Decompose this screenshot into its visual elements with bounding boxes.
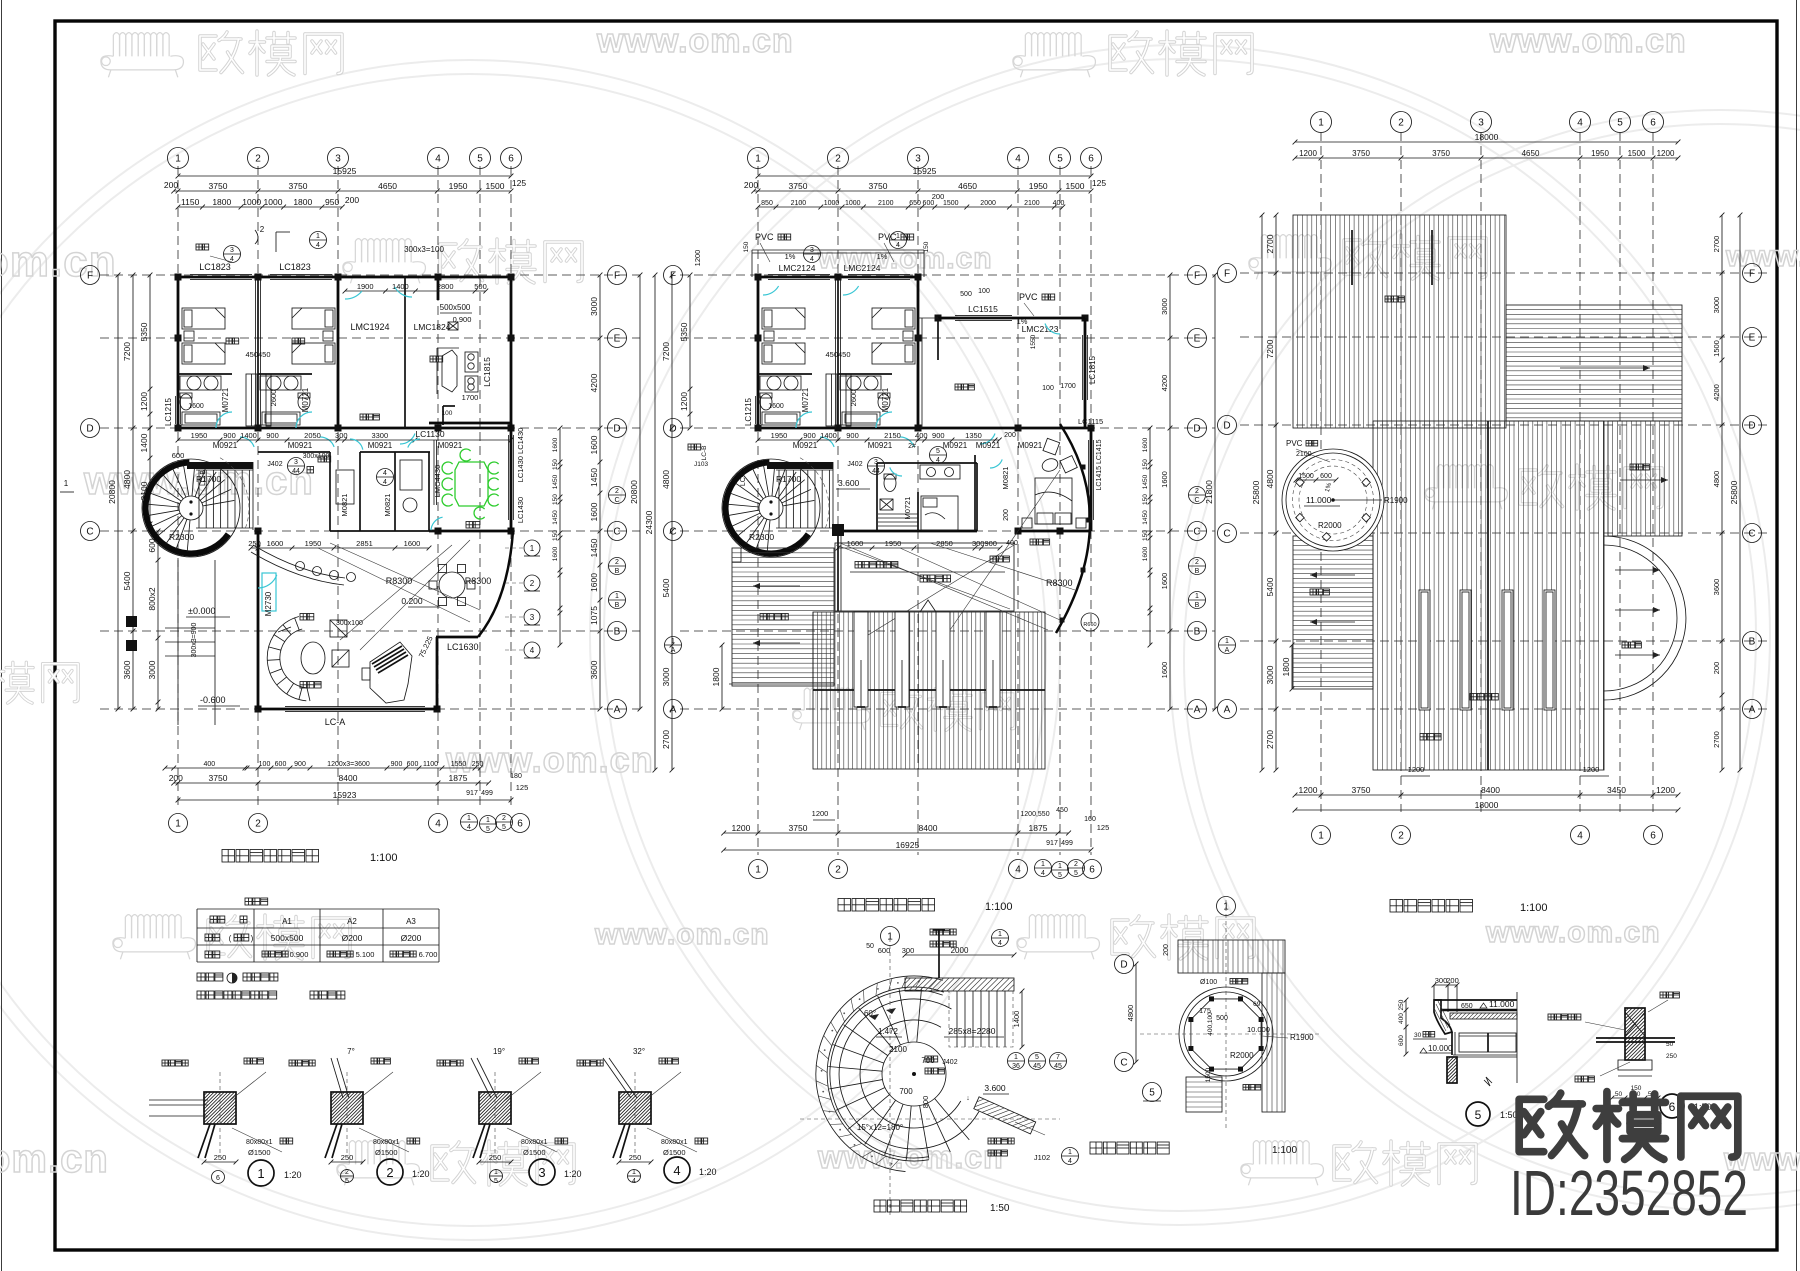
sill detail bottom dim 250 bbox=[331, 1161, 363, 1163]
svg-text:1400: 1400 bbox=[240, 431, 257, 440]
plan2 central bathroom fixtures bbox=[884, 475, 896, 492]
svg-text:3: 3 bbox=[915, 154, 921, 165]
plan1 axis grid horizontal dashed lines bbox=[100, 274, 640, 276]
svg-text:18000: 18000 bbox=[1475, 132, 1499, 142]
party wall double line bbox=[835, 277, 837, 428]
svg-text:R660: R660 bbox=[1083, 622, 1096, 628]
svg-text:1: 1 bbox=[896, 233, 900, 240]
svg-text:2: 2 bbox=[255, 154, 261, 165]
svg-text:LC1130: LC1130 bbox=[415, 429, 444, 439]
svg-text:D: D bbox=[1193, 424, 1200, 435]
svg-text:950: 950 bbox=[325, 197, 339, 207]
closets flanking party wall bbox=[246, 374, 257, 426]
eave detail right edge bbox=[1516, 992, 1518, 1083]
svg-text:1875: 1875 bbox=[449, 773, 468, 783]
plan1 R8300 leader lines bbox=[318, 548, 470, 622]
note line 1 with circle symbol bbox=[197, 973, 205, 981]
plan2 void railing label bbox=[855, 562, 862, 569]
svg-text:J402: J402 bbox=[847, 461, 862, 468]
svg-text:200: 200 bbox=[164, 180, 178, 190]
svg-text:5: 5 bbox=[494, 1178, 498, 1185]
plan3 left grid bubbles bbox=[1218, 264, 1237, 283]
svg-text:20800: 20800 bbox=[107, 480, 117, 504]
svg-text:32°: 32° bbox=[633, 1047, 645, 1056]
svg-text:A: A bbox=[1224, 705, 1231, 716]
svg-text:M0921: M0921 bbox=[976, 441, 1001, 450]
svg-text:15°x12=180°: 15°x12=180° bbox=[857, 1123, 903, 1132]
site logo big text bbox=[1519, 1092, 1738, 1160]
svg-text:7200: 7200 bbox=[1265, 339, 1275, 358]
svg-text:5350: 5350 bbox=[139, 322, 149, 341]
svg-text:C: C bbox=[1748, 529, 1755, 540]
svg-text:LC1823: LC1823 bbox=[279, 262, 311, 272]
svg-text:150: 150 bbox=[552, 530, 559, 541]
svg-text:180: 180 bbox=[510, 773, 522, 780]
stair roof detail corner dots bbox=[1259, 1046, 1264, 1051]
plan2 axis grid vertical dashed lines bbox=[757, 166, 759, 855]
svg-text:200: 200 bbox=[1446, 976, 1459, 985]
svg-text:www.om.cn: www.om.cn bbox=[594, 918, 770, 951]
svg-text:250: 250 bbox=[1666, 1053, 1677, 1060]
svg-text:1000: 1000 bbox=[264, 197, 283, 207]
svg-text:250: 250 bbox=[629, 1153, 642, 1162]
svg-text:3: 3 bbox=[294, 459, 298, 466]
svg-text:1875: 1875 bbox=[1029, 823, 1048, 833]
plan1 right side section bubbles bbox=[524, 540, 540, 556]
svg-text:3000: 3000 bbox=[147, 660, 157, 679]
svg-text:C: C bbox=[613, 527, 620, 538]
plan2 left grid bubbles bbox=[664, 266, 683, 285]
eave detail parapet wall hatched bbox=[1434, 1000, 1452, 1034]
plan1 conference green table bbox=[455, 462, 488, 506]
svg-text:3000: 3000 bbox=[661, 667, 671, 686]
svg-text:2100: 2100 bbox=[1024, 200, 1040, 207]
svg-text:150: 150 bbox=[552, 459, 559, 470]
svg-text:250: 250 bbox=[472, 761, 484, 768]
svg-text:3: 3 bbox=[335, 154, 341, 165]
svg-text:50: 50 bbox=[1615, 1091, 1623, 1098]
svg-text:M0721: M0721 bbox=[301, 387, 310, 412]
svg-text:3450: 3450 bbox=[1607, 785, 1626, 795]
svg-text:2100: 2100 bbox=[878, 200, 894, 207]
svg-text:400: 400 bbox=[203, 761, 215, 768]
plan1 left grid bubbles bbox=[81, 266, 100, 285]
watermark brand band2 right bbox=[1344, 235, 1486, 279]
plan1 hall door arcs top bbox=[345, 291, 362, 299]
svg-text:450450: 450450 bbox=[825, 350, 850, 359]
plan3 roof rect right-mid vertical hatch bbox=[1608, 421, 1682, 536]
svg-text:1: 1 bbox=[998, 931, 1002, 938]
svg-text:1200x3=3600: 1200x3=3600 bbox=[327, 761, 370, 768]
svg-text:M0821: M0821 bbox=[383, 494, 392, 517]
svg-text:2: 2 bbox=[502, 815, 506, 822]
plan2 void corner column bbox=[832, 524, 844, 536]
plan3 roof area labels bbox=[1470, 694, 1477, 701]
svg-text:400: 400 bbox=[915, 431, 928, 440]
svg-text:900: 900 bbox=[846, 431, 859, 440]
watermark brand top-left bbox=[200, 31, 342, 75]
plan1 corridor door arcs cyan bbox=[240, 437, 254, 447]
svg-text:60°: 60° bbox=[864, 1009, 876, 1018]
sill detail hatched box bbox=[619, 1092, 651, 1124]
svg-text:PVC: PVC bbox=[1019, 292, 1038, 302]
bathroom1 fixtures bbox=[178, 373, 232, 375]
plan1 wall columns bbox=[175, 274, 182, 281]
plan1 kitchen island counter bbox=[442, 350, 457, 392]
stair roof detail title bbox=[1090, 1142, 1102, 1154]
svg-text:125: 125 bbox=[512, 178, 526, 188]
svg-text:600: 600 bbox=[275, 761, 287, 768]
svg-text:1: 1 bbox=[615, 593, 619, 600]
glazing detail leaders and labels bbox=[1648, 1000, 1668, 1012]
svg-text:1: 1 bbox=[175, 154, 181, 165]
svg-text:1: 1 bbox=[316, 233, 320, 240]
plan3 roof rect top-left vertical hatch bbox=[1293, 215, 1506, 428]
plan2 axis grid horizontal dashed lines bbox=[680, 274, 1215, 276]
svg-text:6: 6 bbox=[1650, 118, 1656, 129]
svg-text:200: 200 bbox=[1163, 944, 1170, 956]
svg-text:100: 100 bbox=[978, 288, 990, 295]
svg-text:2: 2 bbox=[1398, 118, 1404, 129]
plan1 living room south wall with window LC-A bbox=[258, 708, 437, 711]
svg-text:50: 50 bbox=[1666, 1041, 1674, 1048]
svg-text:1350: 1350 bbox=[965, 431, 982, 440]
spiral staircase straight run bbox=[196, 469, 253, 471]
svg-text:M2730: M2730 bbox=[264, 591, 273, 616]
svg-text:500x500: 500x500 bbox=[271, 933, 304, 943]
svg-text:4: 4 bbox=[530, 646, 535, 655]
svg-text:LC1415 LC1415: LC1415 LC1415 bbox=[1096, 439, 1103, 490]
plan2 windows LMC2124 bbox=[768, 274, 830, 276]
spiral staircase inner circle bbox=[179, 496, 203, 520]
svg-text:B: B bbox=[1194, 627, 1201, 638]
plan1 living room sofa set bbox=[280, 629, 308, 688]
plan1 right grid bubbles bbox=[608, 266, 627, 285]
plan2 master bedroom chairs bbox=[1043, 438, 1060, 455]
svg-text:1: 1 bbox=[1223, 902, 1229, 913]
svg-text:M0921: M0921 bbox=[288, 441, 313, 450]
glazing detail circle 6 bbox=[1660, 1094, 1684, 1118]
svg-text:2600: 2600 bbox=[269, 390, 278, 407]
svg-text:1000: 1000 bbox=[242, 197, 261, 207]
svg-text:100: 100 bbox=[1042, 385, 1054, 392]
plan2 section bubbles upper bbox=[804, 246, 821, 263]
plan2 master bed bbox=[1035, 478, 1072, 524]
svg-text:0.200: 0.200 bbox=[401, 596, 423, 606]
plan1 interior wall axis 2 bbox=[257, 277, 259, 428]
svg-text:3600: 3600 bbox=[1712, 579, 1721, 596]
svg-text:LC1215: LC1215 bbox=[744, 397, 753, 426]
plan2 activity room window LC1515 bbox=[955, 315, 1012, 317]
svg-text:R2000: R2000 bbox=[1318, 521, 1342, 530]
plan2 right fraction bubbles bbox=[1189, 487, 1206, 504]
svg-text:4: 4 bbox=[1577, 118, 1583, 129]
svg-text:1700: 1700 bbox=[462, 393, 479, 402]
svg-text:F: F bbox=[1224, 269, 1230, 280]
svg-text:5350: 5350 bbox=[679, 322, 689, 341]
spiral staircase guide arc dashed bbox=[220, 458, 249, 528]
svg-text:-0.600: -0.600 bbox=[200, 695, 226, 705]
plan2 balcony rail top bbox=[752, 249, 924, 251]
sheet outer edge lines bbox=[1, 0, 3, 1271]
svg-text:3.600: 3.600 bbox=[838, 478, 860, 488]
svg-text:2000: 2000 bbox=[951, 946, 969, 955]
plan3 top dimension row segments bbox=[1295, 157, 1678, 159]
svg-text:1800: 1800 bbox=[1281, 657, 1291, 676]
svg-text:LC-B: LC-B bbox=[701, 446, 708, 461]
svg-text:R1900: R1900 bbox=[1384, 496, 1408, 505]
svg-text:1200: 1200 bbox=[1299, 785, 1318, 795]
sill detail rail slants bbox=[198, 1124, 210, 1158]
svg-text:1950: 1950 bbox=[305, 539, 322, 548]
plan1 small rooms middle walls bbox=[329, 452, 331, 531]
svg-text:M0721: M0721 bbox=[221, 387, 230, 412]
watermark sofa top-left bbox=[101, 33, 184, 78]
svg-text:1200: 1200 bbox=[812, 809, 829, 818]
plan3 top dimension total 18000 bbox=[1295, 141, 1678, 143]
watermark sofa top-middle-right bbox=[1013, 33, 1096, 78]
svg-text:1800: 1800 bbox=[212, 197, 231, 207]
svg-text:10.000: 10.000 bbox=[1247, 1025, 1270, 1034]
svg-text:1550: 1550 bbox=[1030, 334, 1037, 349]
plan2 interior walls bbox=[837, 277, 839, 428]
svg-text:1600: 1600 bbox=[768, 403, 784, 410]
plan1 axis grid vertical dashed lines bbox=[177, 166, 179, 810]
svg-text:500: 500 bbox=[474, 282, 487, 291]
svg-text:10.000: 10.000 bbox=[1428, 1044, 1453, 1053]
svg-text:D: D bbox=[1120, 960, 1127, 971]
svg-text:900: 900 bbox=[391, 761, 403, 768]
svg-text:1450: 1450 bbox=[1142, 474, 1149, 489]
svg-text:6: 6 bbox=[1088, 154, 1094, 165]
svg-text:600: 600 bbox=[878, 946, 891, 955]
svg-text:5400: 5400 bbox=[1265, 577, 1275, 596]
svg-text:2: 2 bbox=[530, 579, 535, 588]
svg-text:1950: 1950 bbox=[771, 431, 788, 440]
stair detail axes dashed bbox=[889, 938, 891, 1215]
svg-text:B: B bbox=[1195, 568, 1200, 575]
svg-text:600: 600 bbox=[1320, 473, 1332, 480]
svg-text:400: 400 bbox=[1398, 1013, 1405, 1024]
svg-text:2100: 2100 bbox=[1296, 451, 1312, 458]
table title above bbox=[245, 898, 252, 905]
svg-text:(: ( bbox=[229, 934, 232, 943]
plan2 top dimension row sub-segments bbox=[758, 206, 1063, 208]
stair detail straight run dashed bbox=[949, 991, 1013, 1047]
sill detail leader and tie bbox=[643, 1072, 681, 1102]
spiral staircase landing bar bbox=[767, 462, 833, 469]
svg-text:700: 700 bbox=[899, 1087, 913, 1096]
svg-text:M0821: M0821 bbox=[1001, 467, 1010, 490]
svg-text:45: 45 bbox=[1054, 1063, 1062, 1070]
svg-text:250: 250 bbox=[214, 1153, 227, 1162]
stair detail right dim 1400 bbox=[1021, 991, 1023, 1047]
svg-text:4200: 4200 bbox=[589, 373, 599, 392]
svg-text:44: 44 bbox=[292, 468, 300, 475]
svg-text:1200: 1200 bbox=[1583, 765, 1600, 774]
svg-text:F: F bbox=[87, 271, 93, 282]
svg-text:C: C bbox=[1194, 497, 1199, 504]
plan1 window LC1215 on left wall bbox=[175, 396, 177, 424]
svg-text:Ø200: Ø200 bbox=[342, 933, 363, 943]
svg-text:1200: 1200 bbox=[679, 392, 689, 411]
plan3 axis grid vertical dashed lines bbox=[1320, 132, 1322, 812]
svg-text:D: D bbox=[1748, 421, 1755, 432]
plan1 kitchen lower jog wall bbox=[442, 406, 444, 425]
svg-text:3: 3 bbox=[1478, 118, 1484, 129]
svg-text:Ø1500: Ø1500 bbox=[375, 1148, 398, 1157]
svg-text:4: 4 bbox=[383, 470, 387, 477]
plan2 roof ridge bbox=[813, 689, 1045, 691]
svg-text:200: 200 bbox=[744, 180, 758, 190]
svg-text:Ø1500: Ø1500 bbox=[663, 1148, 686, 1157]
svg-text:499: 499 bbox=[1061, 840, 1073, 847]
svg-text:11.000: 11.000 bbox=[1306, 495, 1332, 505]
watermark brand mid-right bbox=[1520, 465, 1662, 509]
svg-text:1: 1 bbox=[1195, 593, 1199, 600]
plan1 top-right kitchen wall bbox=[438, 276, 511, 279]
svg-text:LC1823: LC1823 bbox=[199, 262, 231, 272]
svg-text:100: 100 bbox=[442, 410, 453, 417]
stair detail top dims bbox=[905, 954, 1014, 956]
svg-text:5: 5 bbox=[1149, 1088, 1155, 1099]
giant watermark arc right bbox=[1170, 110, 1800, 1210]
watermark sofa plan2 bottom bbox=[793, 688, 870, 730]
plan3 curved balcony east bbox=[1604, 536, 1686, 700]
plan1 section mark bubbles upper bbox=[224, 246, 241, 263]
svg-text:900: 900 bbox=[803, 431, 816, 440]
svg-text:2851: 2851 bbox=[356, 539, 373, 548]
sill detail axis dashed bbox=[494, 1072, 496, 1154]
svg-text:R2300: R2300 bbox=[749, 532, 774, 542]
sill detail leader and tie bbox=[503, 1072, 541, 1102]
stair roof detail axes bbox=[1225, 900, 1227, 1130]
plan3 stair tower white mask bbox=[1282, 449, 1385, 552]
svg-text:300x100: 300x100 bbox=[336, 620, 363, 627]
svg-text:1500: 1500 bbox=[486, 181, 505, 191]
svg-text:200: 200 bbox=[1003, 509, 1010, 521]
svg-text:500: 500 bbox=[960, 291, 972, 298]
svg-text:1500: 1500 bbox=[1066, 181, 1085, 191]
svg-text:80x80x1: 80x80x1 bbox=[373, 1139, 400, 1146]
watermark sofa bottom band bbox=[337, 1141, 420, 1186]
svg-text:125: 125 bbox=[516, 783, 529, 792]
sill detail labels bbox=[162, 1060, 168, 1066]
svg-text:www.om.cn: www.om.cn bbox=[445, 739, 654, 780]
svg-text:2800: 2800 bbox=[437, 282, 454, 291]
svg-text:1500: 1500 bbox=[1712, 340, 1721, 357]
svg-text:M0921: M0921 bbox=[793, 441, 818, 450]
svg-text:LC1115: LC1115 bbox=[1078, 417, 1103, 426]
svg-text:2700: 2700 bbox=[661, 730, 671, 749]
spiral staircase thick arc bbox=[726, 463, 809, 554]
svg-text:45: 45 bbox=[1033, 1063, 1041, 1070]
plan2 corridor door arcs and labels bbox=[820, 437, 834, 447]
spiral staircase landing bar bbox=[187, 462, 253, 469]
svg-text:1600: 1600 bbox=[1142, 437, 1149, 452]
svg-text:1450: 1450 bbox=[552, 474, 559, 489]
svg-text:1000: 1000 bbox=[824, 200, 840, 207]
svg-text:LC1630: LC1630 bbox=[447, 642, 479, 652]
svg-text:1600: 1600 bbox=[589, 502, 599, 521]
svg-text:A2: A2 bbox=[347, 917, 357, 926]
svg-text:5: 5 bbox=[486, 826, 490, 833]
svg-text:125: 125 bbox=[1092, 178, 1106, 188]
stair detail bottom-right slab hatched bbox=[974, 1097, 1036, 1134]
plan2 main roof hatched bbox=[813, 612, 1045, 769]
svg-text:B: B bbox=[614, 627, 621, 638]
sill detail hatched box bbox=[331, 1092, 363, 1124]
plan1 small room fixtures bbox=[336, 470, 354, 504]
plan2 grid bubbles top row 1-6 bbox=[748, 148, 769, 169]
svg-text:4: 4 bbox=[1041, 870, 1045, 877]
plan2 left dimension columns bbox=[654, 275, 656, 770]
svg-text:450: 450 bbox=[1056, 807, 1068, 814]
eave detail break mark bbox=[1484, 1080, 1490, 1086]
stair detail ring hatch bbox=[890, 1160, 899, 1169]
plan2 R8300 labels and leaders bbox=[900, 548, 1060, 620]
svg-text:3000: 3000 bbox=[1265, 665, 1275, 684]
svg-text:917: 917 bbox=[1046, 840, 1058, 847]
plan1 kitchen dim row bbox=[345, 290, 486, 292]
svg-text:100: 100 bbox=[259, 761, 271, 768]
svg-text:1600: 1600 bbox=[267, 539, 284, 548]
svg-text:D: D bbox=[613, 424, 620, 435]
plan1 bottom dimension row fine bbox=[165, 767, 480, 769]
svg-text:4200: 4200 bbox=[1160, 375, 1169, 392]
plan2 activity room walls bbox=[938, 317, 1085, 320]
plan1 right fraction bubbles bbox=[609, 487, 626, 504]
svg-text:1600: 1600 bbox=[188, 403, 204, 410]
svg-text:4: 4 bbox=[936, 457, 940, 464]
bedroom1 horizontal twin beds bbox=[762, 308, 805, 329]
watermark brand band5 left bbox=[208, 915, 350, 959]
plan1 outdoor dining table bbox=[439, 572, 465, 598]
plan3 roof rect top-right horizontal hatch bbox=[1506, 305, 1682, 421]
plan2 windows LC1415 east wall bbox=[1090, 428, 1093, 531]
svg-text:2: 2 bbox=[615, 559, 619, 566]
sill detail labels bbox=[437, 1060, 443, 1066]
svg-text:19°: 19° bbox=[493, 1047, 505, 1056]
svg-text:Ø100: Ø100 bbox=[1200, 979, 1217, 986]
svg-text:150: 150 bbox=[552, 494, 559, 505]
svg-text:D: D bbox=[1223, 421, 1230, 432]
plan2 deck roof left hatched bbox=[732, 548, 834, 686]
giant watermark arc middle bbox=[590, 45, 1770, 1225]
plan2 title caption bbox=[838, 899, 851, 912]
svg-text:E: E bbox=[1749, 333, 1756, 344]
svg-text:150: 150 bbox=[1142, 530, 1149, 541]
plan2 master bedroom walls bbox=[974, 455, 976, 531]
svg-text:2: 2 bbox=[615, 488, 619, 495]
plan2 corridor wall axis D bbox=[758, 427, 1091, 430]
svg-text:4: 4 bbox=[632, 1178, 636, 1185]
svg-text:5: 5 bbox=[1058, 872, 1062, 879]
glazing detail member bbox=[1625, 1008, 1645, 1060]
svg-text:25800: 25800 bbox=[1251, 480, 1261, 504]
svg-text:J402: J402 bbox=[267, 461, 282, 468]
svg-text:M0921: M0921 bbox=[438, 441, 463, 450]
svg-text:400,100: 400,100 bbox=[1207, 1012, 1214, 1036]
eave detail window band bbox=[1451, 1032, 1453, 1055]
svg-text:150: 150 bbox=[1142, 459, 1149, 470]
plan1 top dimension line total 15925 bbox=[178, 175, 511, 177]
plan3 roof arrow right-mid bbox=[1620, 479, 1668, 481]
plan1 left exterior wall bbox=[177, 277, 180, 428]
svg-text:1: 1 bbox=[467, 815, 471, 822]
svg-text:1400: 1400 bbox=[392, 282, 409, 291]
svg-text:6: 6 bbox=[1650, 831, 1656, 842]
